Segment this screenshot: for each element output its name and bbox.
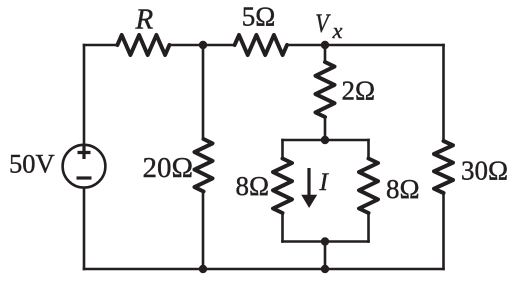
node junction bottom of 20 ohm branch	[199, 265, 207, 273]
wire right rail top	[442, 45, 445, 141]
svg-text:8Ω: 8Ω	[386, 174, 420, 204]
svg-text:2Ω: 2Ω	[342, 76, 376, 106]
wire parallel box left bottom stub	[281, 213, 284, 242]
node junction top of parallel box	[321, 136, 329, 144]
node junction top of 20 ohm branch	[199, 41, 207, 49]
resistor 20 ohm	[195, 139, 213, 192]
voltage source minus sign	[77, 176, 92, 179]
node Vx	[321, 41, 329, 49]
wire parallel box right bottom stub	[367, 213, 370, 242]
wire top rail 5ohm to top-right corner	[287, 44, 444, 47]
resistor 2 ohm	[316, 62, 335, 117]
wire 20 ohm branch bottom	[202, 192, 205, 270]
wire top rail left (source top corner to R)	[84, 44, 117, 47]
svg-text:20Ω: 20Ω	[143, 152, 194, 184]
wire parallel box left top stub	[281, 140, 284, 159]
wire right rail bottom	[442, 193, 445, 269]
wire 2 ohm to parallel box	[324, 117, 327, 140]
resistor 5 ohm	[235, 35, 287, 55]
svg-text:x: x	[332, 18, 343, 43]
wire top rail R to 5ohm	[169, 44, 234, 47]
resistor 8 ohm left	[273, 159, 292, 214]
wire parallel box top	[283, 139, 369, 142]
node junction bottom rail center branch	[321, 265, 329, 273]
wire left rail bottom	[83, 189, 86, 269]
voltage source plus sign	[78, 146, 91, 159]
resistor R	[117, 35, 169, 55]
wire left rail top	[83, 45, 86, 144]
wire parallel box to bottom rail	[324, 242, 327, 270]
current arrow I	[307, 168, 310, 197]
svg-text:30Ω: 30Ω	[461, 156, 508, 186]
svg-text:V: V	[315, 10, 330, 38]
voltage source 50V circle	[63, 145, 106, 188]
svg-text:50V: 50V	[9, 149, 55, 179]
wire parallel box bottom	[283, 240, 369, 243]
svg-text:5Ω: 5Ω	[242, 2, 276, 32]
resistor 30 ohm	[434, 141, 453, 193]
wire 20 ohm branch top	[202, 45, 205, 139]
wire parallel box right top stub	[367, 140, 370, 159]
svg-text:I: I	[319, 169, 330, 196]
node junction bottom of parallel box	[321, 237, 329, 245]
resistor 8 ohm right	[359, 159, 378, 214]
wire Vx to 2 ohm	[324, 45, 327, 62]
svg-text:8Ω: 8Ω	[236, 171, 270, 201]
wire bottom rail	[84, 268, 444, 271]
svg-text:R: R	[134, 4, 153, 36]
